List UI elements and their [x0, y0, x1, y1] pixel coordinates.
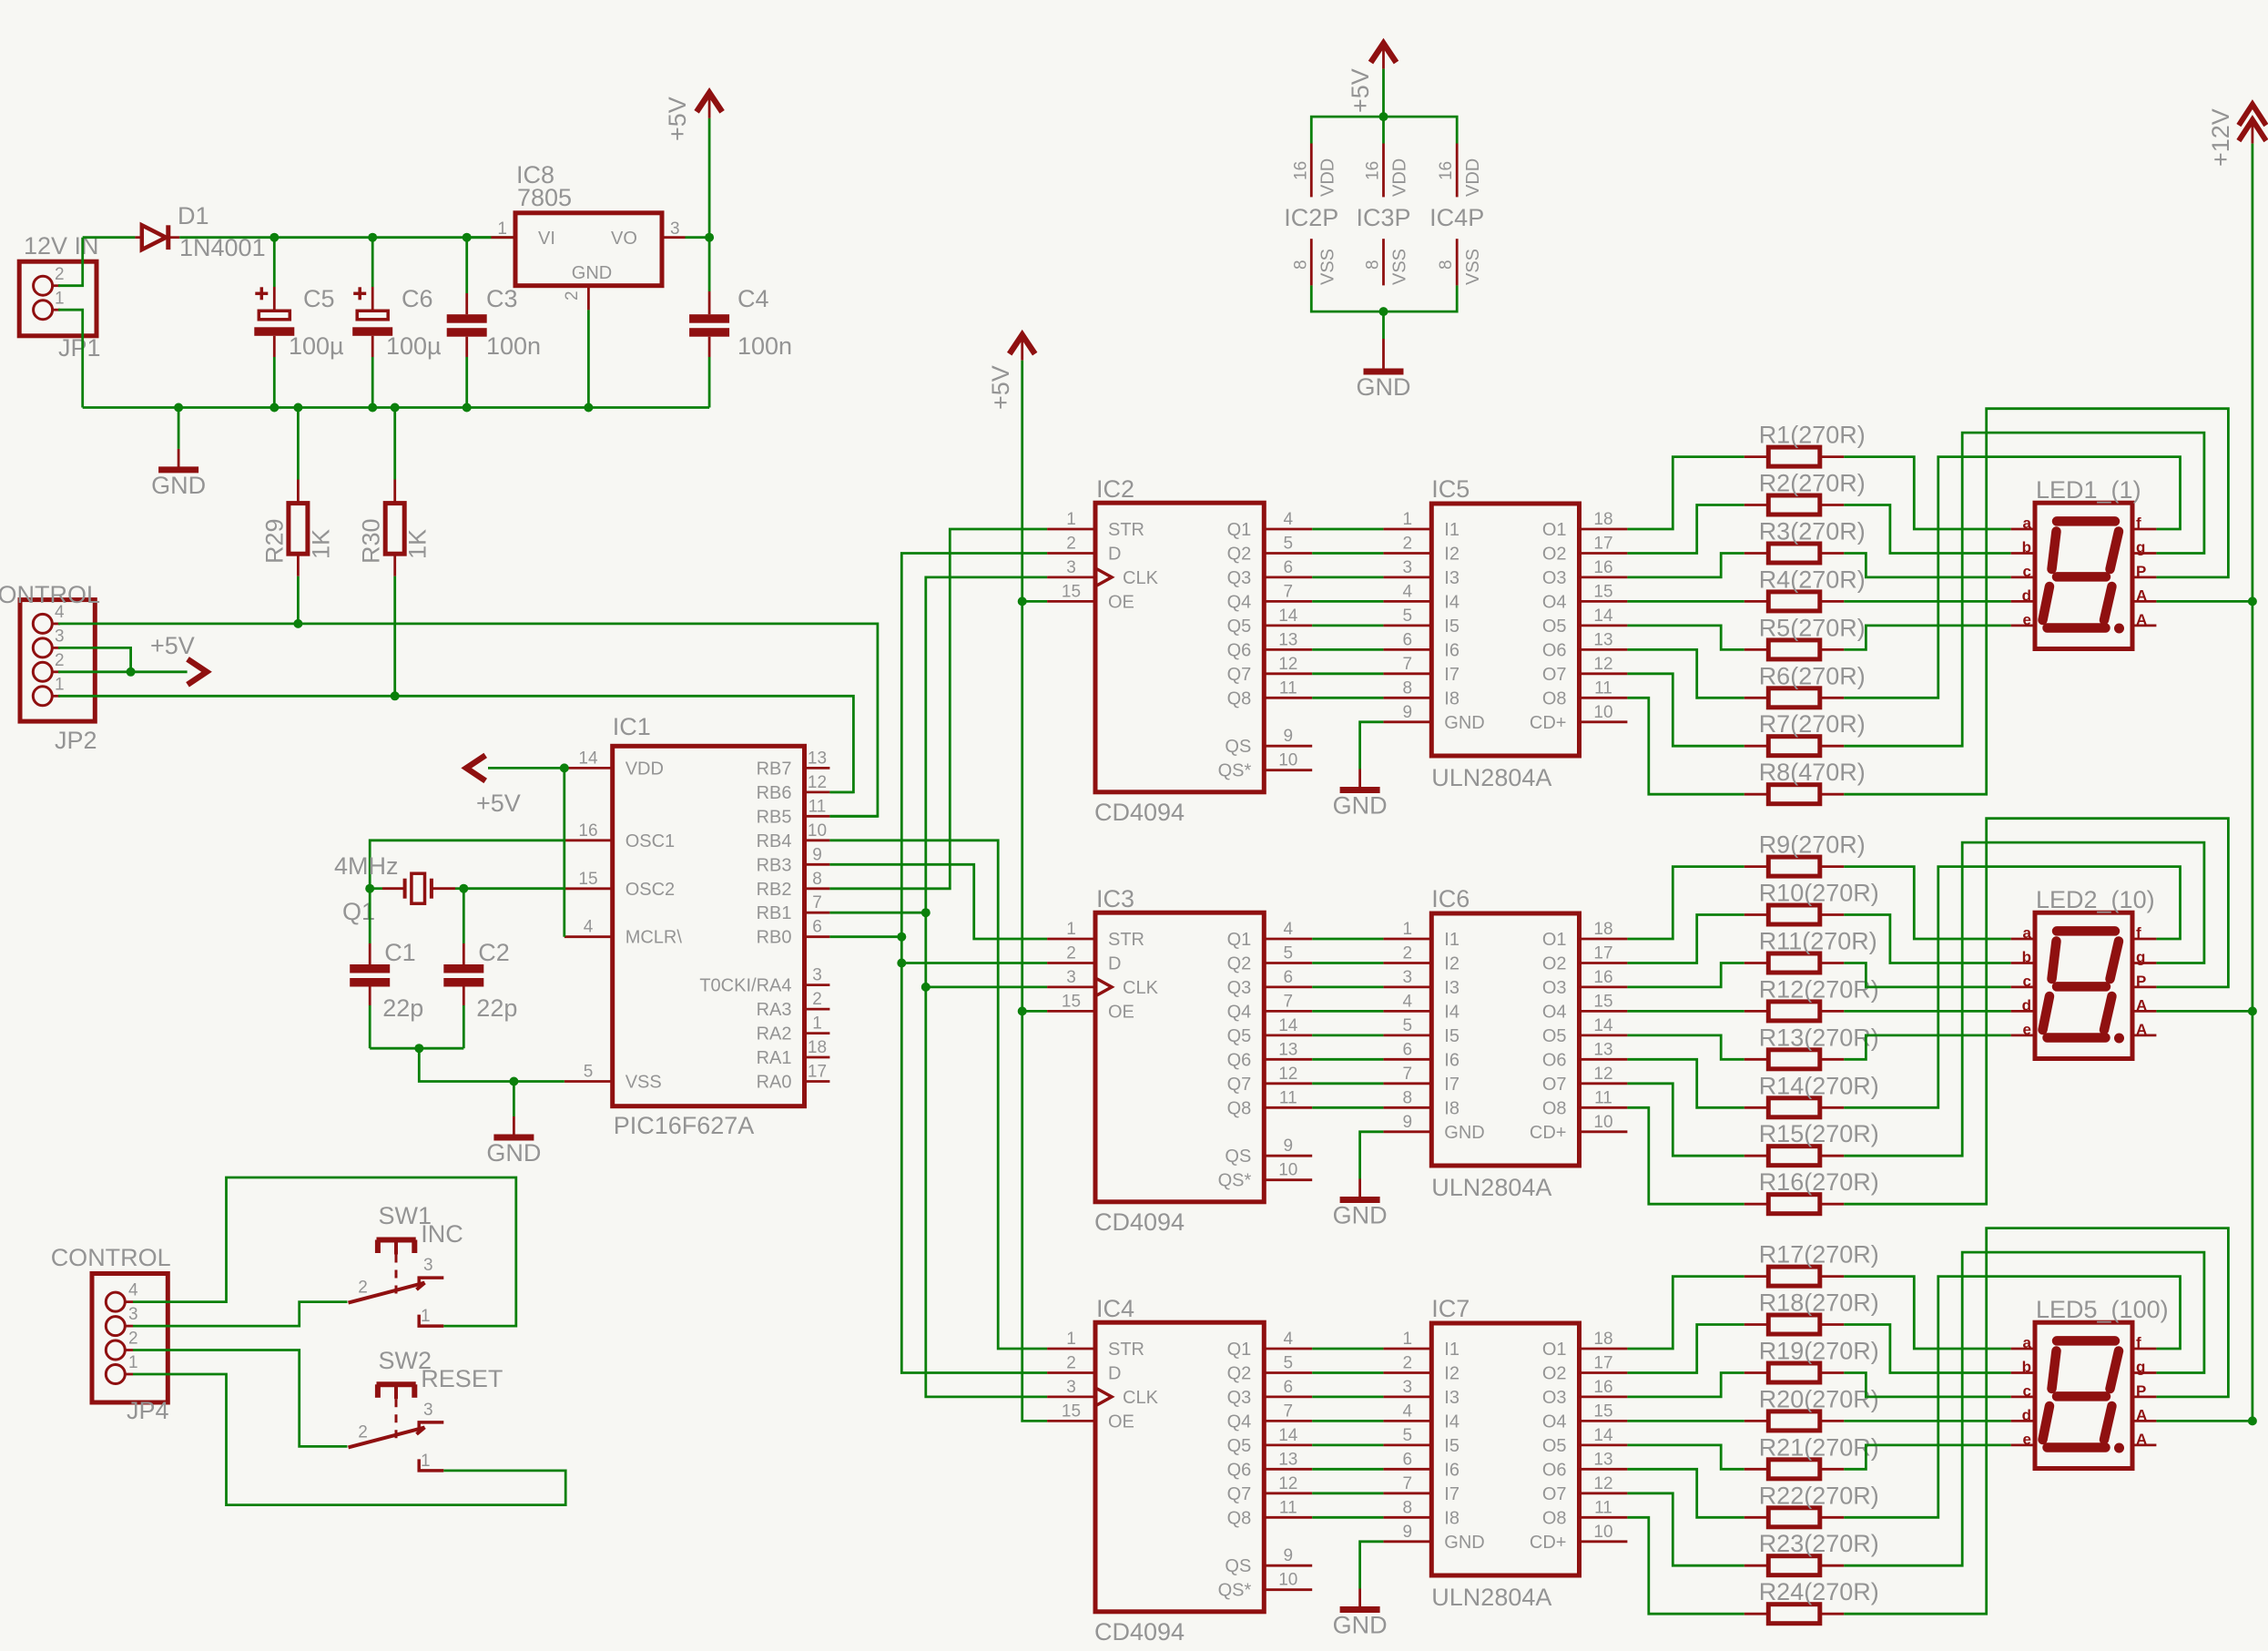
svg-text:16: 16: [1593, 968, 1612, 987]
svg-text:4MHz: 4MHz: [334, 852, 399, 880]
svg-text:2: 2: [1403, 1354, 1413, 1373]
resistor R1 270R: [1768, 447, 1820, 466]
IC7 pin 16 O3 stub: [1580, 1396, 1628, 1399]
svg-text:GND: GND: [1444, 1533, 1484, 1553]
JP2 pin 4 circle: [33, 614, 52, 633]
wire OE branch IC3: [1022, 1010, 1047, 1013]
R7 left pin: [1744, 745, 1769, 748]
capacitor C6: [352, 287, 392, 336]
svg-text:VDD: VDD: [1317, 158, 1337, 197]
R1 right pin: [1820, 455, 1845, 458]
IC5 pin 11 O8 stub: [1580, 697, 1628, 699]
IC2 pin 14 Q5 stub: [1264, 625, 1312, 627]
wire R11 to LED c: [1844, 963, 2010, 987]
IC4 pin 2 D stub: [1047, 1371, 1095, 1374]
svg-text:8: 8: [1403, 678, 1413, 698]
IC4 pin 5 Q2 stub: [1264, 1371, 1312, 1374]
junction 12V/C5: [270, 233, 279, 242]
wire O3 to R19: [1627, 1373, 1744, 1397]
svg-text:8: 8: [1403, 1498, 1413, 1517]
R29 bottom pin: [297, 554, 300, 576]
svg-text:CONTROL: CONTROL: [0, 581, 100, 608]
R15 left pin: [1744, 1155, 1769, 1157]
svg-text:R8(470R): R8(470R): [1759, 759, 1866, 786]
R20 right pin: [1820, 1420, 1845, 1422]
svg-text:3: 3: [55, 627, 65, 646]
IC5 pin 13 O6 stub: [1580, 648, 1628, 651]
IC3 pin 9 QS stub: [1264, 1155, 1312, 1157]
IC7 pin 14 O5 stub: [1580, 1444, 1628, 1447]
LED1 pin c stub: [2011, 576, 2035, 579]
svg-text:9: 9: [1284, 1136, 1294, 1156]
IC7 pin 10 CD+ stub: [1580, 1540, 1628, 1543]
svg-text:R14(270R): R14(270R): [1759, 1072, 1879, 1099]
IC3 CLK wedge: [1095, 978, 1112, 996]
svg-text:R1(270R): R1(270R): [1759, 422, 1866, 449]
svg-text:4: 4: [1403, 582, 1413, 601]
LED5 pin g stub: [2132, 1371, 2156, 1374]
LED5 pin a stub: [2011, 1348, 2035, 1350]
svg-text:C1: C1: [384, 939, 416, 966]
wire IC4 Q1 to IC7 I1: [1312, 1348, 1383, 1350]
IC6 pin 5 I5 stub: [1383, 1034, 1431, 1037]
wire O7 to R15: [1627, 1084, 1744, 1156]
svg-text:RB7: RB7: [757, 759, 792, 779]
LED1 pin d stub: [2011, 600, 2035, 603]
JP4 pin 4 circle: [106, 1292, 125, 1311]
JP4 pin 1 circle: [106, 1365, 125, 1384]
svg-text:P: P: [2136, 973, 2146, 990]
R4 left pin: [1744, 600, 1769, 603]
IC7 pin 3 I3 stub: [1383, 1396, 1431, 1399]
svg-text:O3: O3: [1542, 1388, 1567, 1408]
IC7 pin 11 O8 stub: [1580, 1516, 1628, 1519]
IC2 pin 2 D stub: [1047, 552, 1095, 555]
svg-text:IC2: IC2: [1096, 475, 1134, 503]
resistor R20 270R: [1768, 1412, 1820, 1431]
LED display LED5_(100) box: [2035, 1322, 2132, 1468]
svg-text:14: 14: [1593, 1426, 1613, 1445]
R23 left pin: [1744, 1564, 1769, 1567]
wire O3 to R3: [1627, 554, 1744, 577]
svg-text:D: D: [1108, 1364, 1121, 1384]
R5 left pin: [1744, 648, 1769, 651]
svg-text:Q3: Q3: [1227, 978, 1252, 998]
IC2 pin 7 Q4 stub: [1264, 600, 1312, 603]
LED2 pin e stub: [2011, 1034, 2035, 1037]
svg-text:VDD: VDD: [1390, 158, 1410, 197]
IC4 pin 10 QS* stub: [1264, 1588, 1312, 1591]
wire RB4 to IC4 STR: [829, 841, 1047, 1349]
wire R15 to LED g: [1844, 842, 2204, 1156]
svg-text:2: 2: [358, 1422, 368, 1442]
svg-text:Q8: Q8: [1227, 688, 1252, 708]
IC8 pin 2 GND stub: [587, 286, 590, 311]
svg-text:16: 16: [1291, 161, 1310, 180]
svg-text:15: 15: [1062, 992, 1081, 1011]
GND rail wire: [83, 406, 709, 409]
svg-text:Q2: Q2: [1227, 1364, 1252, 1384]
junction R30/JP2.1 net: [391, 691, 400, 700]
svg-text:1K: 1K: [307, 529, 334, 559]
svg-text:3: 3: [1403, 968, 1413, 987]
LED1 pin A stub: [2132, 600, 2156, 603]
svg-text:VO: VO: [611, 229, 637, 249]
wire VSS rail: [1311, 285, 1457, 311]
svg-text:+5V: +5V: [476, 790, 521, 817]
svg-text:O1: O1: [1542, 930, 1567, 950]
svg-text:I6: I6: [1444, 1050, 1459, 1070]
svg-text:MCLR\: MCLR\: [625, 928, 683, 948]
R4 right pin: [1820, 600, 1845, 603]
IC7 pin 6 I6 stub: [1383, 1468, 1431, 1471]
IC4 pin 9 QS stub: [1264, 1564, 1312, 1567]
R1 left pin: [1744, 455, 1769, 458]
svg-text:10: 10: [1593, 703, 1612, 722]
svg-text:c: c: [2023, 1382, 2031, 1400]
C4 top pin: [708, 291, 711, 314]
C2 bottom pin: [463, 987, 465, 1006]
junction rail/IC8 GND: [584, 403, 593, 413]
svg-text:9: 9: [1284, 1546, 1294, 1565]
resistor R4 270R: [1768, 592, 1820, 611]
JP2 pin 1 circle: [33, 687, 52, 706]
LED2 pin f stub: [2132, 938, 2156, 941]
wire O6 to R22: [1627, 1469, 1744, 1517]
wire O7 to R23: [1627, 1493, 1744, 1565]
IC6 pin 9 GND stub: [1383, 1130, 1431, 1133]
wire RB2 to IC2 STR: [829, 529, 1047, 889]
svg-text:2: 2: [812, 990, 822, 1009]
svg-text:10: 10: [1593, 1113, 1612, 1132]
svg-text:b: b: [2022, 539, 2031, 556]
wire R10 to LED b: [1844, 915, 2010, 963]
R12 left pin: [1744, 1010, 1769, 1013]
svg-text:Q6: Q6: [1227, 1050, 1252, 1070]
svg-text:13: 13: [808, 749, 827, 768]
IC7 pin 2 I2 stub: [1383, 1371, 1431, 1374]
svg-text:I4: I4: [1444, 1412, 1459, 1432]
svg-text:11: 11: [1594, 1088, 1612, 1107]
IC3 pin 6 Q3 stub: [1264, 986, 1312, 989]
svg-text:VI: VI: [538, 229, 555, 249]
wire IC4 Q6 to IC7 I6: [1312, 1468, 1383, 1471]
IC4 CLK wedge: [1095, 1388, 1112, 1406]
wire +5V to IC1 VDD: [488, 767, 564, 769]
svg-text:14: 14: [1278, 1016, 1298, 1035]
wire RB1 to CLK bus: [829, 912, 925, 914]
svg-text:GND: GND: [151, 472, 206, 499]
wire R17 to LED a: [1844, 1277, 2010, 1349]
svg-text:I4: I4: [1444, 592, 1459, 612]
svg-text:1: 1: [55, 290, 65, 309]
IC IC7 ULN2804A box: [1431, 1323, 1579, 1575]
resistor R9 270R: [1768, 857, 1820, 876]
svg-text:1: 1: [497, 219, 507, 239]
R11 left pin: [1744, 962, 1769, 964]
svg-text:A: A: [2136, 996, 2147, 1014]
IC6 pin 13 O6 stub: [1580, 1058, 1628, 1061]
svg-text:QS: QS: [1225, 1147, 1251, 1167]
svg-text:I8: I8: [1444, 1098, 1459, 1118]
svg-text:I6: I6: [1444, 1460, 1459, 1480]
svg-text:IC3: IC3: [1096, 885, 1134, 912]
svg-text:15: 15: [1062, 582, 1081, 601]
wire to IC1 VSS: [419, 1048, 564, 1081]
svg-text:I8: I8: [1444, 688, 1459, 708]
svg-text:3: 3: [812, 966, 822, 985]
svg-text:12: 12: [1593, 1065, 1612, 1084]
R8 left pin: [1744, 793, 1769, 796]
svg-text:OE: OE: [1108, 1412, 1134, 1432]
IC4 pin 14 Q5 stub: [1264, 1444, 1312, 1447]
IC IC5 ULN2804A box: [1431, 504, 1579, 756]
svg-text:R24(270R): R24(270R): [1759, 1578, 1879, 1605]
svg-text:Q7: Q7: [1227, 665, 1252, 685]
svg-text:6: 6: [1284, 968, 1294, 987]
wire O5 to R13: [1627, 1035, 1744, 1059]
svg-text:7: 7: [1403, 655, 1413, 674]
svg-text:R13(270R): R13(270R): [1759, 1024, 1879, 1051]
svg-text:I7: I7: [1444, 1075, 1459, 1095]
svg-text:14: 14: [1278, 1426, 1298, 1445]
svg-text:I3: I3: [1444, 978, 1459, 998]
R6 left pin: [1744, 697, 1769, 699]
IC5 pin 3 I3 stub: [1383, 576, 1431, 579]
svg-text:LED2_(10): LED2_(10): [2036, 886, 2155, 913]
wire IC3 Q2 to IC6 I2: [1312, 962, 1383, 964]
resistor R15 270R: [1768, 1147, 1820, 1166]
svg-text:6: 6: [812, 918, 822, 937]
wire +5V to VDD rail: [1382, 69, 1385, 117]
junction +12V/LED5 A: [2248, 1416, 2257, 1425]
IC IC6 ULN2804A box: [1431, 913, 1579, 1166]
IC3 pin 12 Q7 stub: [1264, 1082, 1312, 1085]
+5V supply arrow (power): [697, 93, 722, 118]
svg-text:a: a: [2023, 924, 2032, 942]
IC1 pin 8 RB2 stub: [805, 887, 830, 890]
svg-text:O5: O5: [1542, 1436, 1567, 1456]
svg-text:R3(270R): R3(270R): [1759, 518, 1866, 545]
svg-text:R18(270R): R18(270R): [1759, 1289, 1879, 1317]
wire +5V OE column: [1022, 361, 1047, 1422]
svg-text:10: 10: [1278, 1571, 1297, 1590]
IC2 pin 6 Q3 stub: [1264, 576, 1312, 579]
svg-text:VSS: VSS: [1463, 249, 1483, 285]
svg-text:2: 2: [563, 290, 582, 301]
LED5 pin c stub: [2011, 1396, 2035, 1399]
svg-text:R11(270R): R11(270R): [1759, 928, 1877, 955]
wire O5 to R5: [1627, 626, 1744, 650]
svg-text:C2: C2: [478, 939, 510, 966]
wire VDD rail center drop: [1382, 117, 1385, 143]
R6 right pin: [1820, 697, 1845, 699]
IC6 pin 10 CD+ stub: [1580, 1130, 1628, 1133]
svg-text:CONTROL: CONTROL: [51, 1244, 171, 1271]
svg-text:VSS: VSS: [1390, 249, 1410, 285]
IC6 pin 11 O8 stub: [1580, 1106, 1628, 1109]
resistor R19 270R: [1768, 1363, 1820, 1382]
IC4 pin 6 Q3 stub: [1264, 1396, 1312, 1399]
IC1 pin 17 RA0 stub: [805, 1080, 830, 1083]
svg-text:OE: OE: [1108, 592, 1134, 612]
svg-text:9: 9: [1403, 1113, 1413, 1132]
wire R24 to LED P: [1844, 1228, 2228, 1615]
svg-text:2: 2: [358, 1279, 368, 1298]
svg-text:d: d: [2022, 586, 2031, 604]
wire IC3 Q1 to IC6 I1: [1312, 938, 1383, 941]
IC5 pin 18 O1 stub: [1580, 528, 1628, 531]
svg-text:8: 8: [812, 870, 822, 889]
svg-text:+5V: +5V: [987, 365, 1014, 410]
svg-text:A: A: [2136, 1406, 2147, 1423]
svg-text:CD4094: CD4094: [1094, 1208, 1185, 1236]
svg-text:10: 10: [1278, 1161, 1297, 1180]
svg-text:CD+: CD+: [1530, 1533, 1567, 1553]
IC3 pin 3 CLK stub: [1047, 986, 1095, 989]
svg-text:15: 15: [1593, 582, 1612, 601]
resistor R14 270R: [1768, 1098, 1820, 1117]
wire crystal to C2: [463, 889, 465, 943]
svg-text:RB0: RB0: [757, 928, 792, 948]
junction 12V/C6: [368, 233, 377, 242]
svg-text:1: 1: [1403, 920, 1413, 939]
IC5 pin 10 CD+ stub: [1580, 720, 1628, 723]
svg-text:c: c: [2023, 563, 2031, 580]
svg-text:O8: O8: [1542, 688, 1567, 708]
svg-text:D1: D1: [178, 202, 209, 229]
svg-text:4: 4: [584, 918, 594, 937]
R30 bottom pin: [393, 554, 396, 576]
wire IC3 Q4 to IC6 I4: [1312, 1010, 1383, 1013]
D1 cathode pin: [170, 236, 179, 239]
IC1 pin 7 RB1 stub: [805, 912, 830, 914]
svg-text:R10(270R): R10(270R): [1759, 880, 1879, 907]
svg-text:GND: GND: [1444, 713, 1484, 733]
resistor R23 270R: [1768, 1556, 1820, 1575]
svg-text:f: f: [2136, 1334, 2141, 1351]
wire IC2 Q8 to IC5 I8: [1312, 697, 1383, 699]
IC3 pin 2 D stub: [1047, 962, 1095, 964]
svg-text:e: e: [2023, 611, 2031, 628]
IC7 pin 9 GND stub: [1383, 1540, 1431, 1543]
junction rail/R29: [293, 403, 302, 413]
svg-text:STR: STR: [1108, 520, 1144, 540]
svg-text:3: 3: [1066, 558, 1076, 577]
wire VSS rail to GND: [1382, 311, 1385, 339]
resistor R13 270R: [1768, 1050, 1820, 1069]
junction VO/C4/+5V: [705, 233, 714, 242]
R14 right pin: [1820, 1106, 1845, 1109]
svg-text:11: 11: [1594, 678, 1612, 698]
svg-text:R4(270R): R4(270R): [1759, 566, 1866, 593]
svg-text:LED5_(100): LED5_(100): [2036, 1296, 2169, 1323]
IC5 pin 9 GND stub: [1383, 720, 1431, 723]
wire O7 to R7: [1627, 674, 1744, 746]
LED2 seven-segment digit: [2043, 931, 2125, 1043]
svg-text:I3: I3: [1444, 568, 1459, 588]
svg-text:4: 4: [1403, 992, 1413, 1011]
junction 12V/C3: [463, 233, 472, 242]
R13 right pin: [1820, 1058, 1845, 1061]
wire rail to R30: [393, 408, 396, 480]
svg-text:1: 1: [812, 1014, 822, 1034]
wire +12V rail: [2251, 144, 2253, 1422]
svg-text:1K: 1K: [404, 529, 432, 559]
svg-text:GND: GND: [1444, 1123, 1484, 1143]
wire CLK bus branch IC3: [926, 986, 1047, 989]
LED5 pin e stub: [2011, 1444, 2035, 1447]
IC8 pin 3 VO stub: [662, 236, 686, 239]
+12V supply arrow: [2239, 105, 2266, 144]
resistor R30 1K: [385, 504, 404, 555]
resistor R6 270R: [1768, 688, 1820, 708]
svg-text:12: 12: [1593, 1474, 1612, 1493]
svg-text:Q2: Q2: [1227, 954, 1252, 974]
IC6 pin 6 I6 stub: [1383, 1058, 1431, 1061]
junction JP2.2/JP2.3: [127, 668, 136, 677]
svg-text:15: 15: [1593, 1401, 1612, 1421]
svg-text:VDD: VDD: [625, 759, 664, 779]
wire IC4 Q4 to IC7 I4: [1312, 1420, 1383, 1422]
svg-text:+5V: +5V: [150, 632, 195, 659]
svg-text:g: g: [2136, 949, 2145, 966]
wire R19 to LED c: [1844, 1373, 2010, 1397]
junction OE IC3: [1018, 1006, 1027, 1015]
svg-text:O5: O5: [1542, 617, 1567, 637]
svg-text:R22(270R): R22(270R): [1759, 1482, 1879, 1509]
ground GND (IC1): [486, 1116, 541, 1167]
svg-text:O1: O1: [1542, 520, 1567, 540]
svg-text:17: 17: [808, 1063, 827, 1082]
wire IC4 Q8 to IC7 I8: [1312, 1516, 1383, 1519]
wire crystal right lead: [455, 887, 463, 890]
svg-text:9: 9: [1403, 703, 1413, 722]
IC6 pin 4 I4 stub: [1383, 1010, 1431, 1013]
svg-text:12: 12: [1593, 655, 1612, 674]
svg-text:R9(270R): R9(270R): [1759, 831, 1866, 859]
svg-text:IC4: IC4: [1096, 1295, 1134, 1322]
svg-text:4: 4: [1284, 510, 1294, 529]
svg-text:IC2P: IC2P: [1284, 204, 1338, 231]
svg-text:I8: I8: [1444, 1508, 1459, 1528]
svg-text:RB2: RB2: [757, 880, 792, 900]
wire R6 to LED f: [1844, 457, 2180, 698]
svg-text:O3: O3: [1542, 978, 1567, 998]
svg-text:16: 16: [1593, 558, 1612, 577]
wire O1 to R1: [1627, 457, 1744, 529]
wire IC7 GND to ground: [1360, 1542, 1384, 1589]
svg-text:JP2: JP2: [55, 727, 97, 754]
svg-text:5: 5: [584, 1063, 594, 1082]
svg-text:8: 8: [1437, 260, 1456, 270]
wire R7 to LED g: [1844, 433, 2204, 746]
svg-text:100n: 100n: [737, 332, 792, 360]
IC3 pin 7 Q4 stub: [1264, 1010, 1312, 1013]
junction R29/JP2.4 net: [293, 619, 302, 628]
IC6 pin 18 O1 stub: [1580, 938, 1628, 941]
wire D bus branch IC3: [901, 962, 1047, 964]
resistor R16 270R: [1768, 1195, 1820, 1214]
wire crystal left lead: [370, 887, 382, 890]
svg-text:5: 5: [1284, 535, 1294, 554]
LED2 pin A stub: [2132, 1034, 2156, 1037]
svg-text:C4: C4: [737, 285, 769, 312]
wire JP4.2 to SW2.2: [133, 1350, 348, 1447]
svg-text:R20(270R): R20(270R): [1759, 1385, 1879, 1412]
JP4 pin 3 circle: [106, 1317, 125, 1336]
wire O4 to R20: [1627, 1420, 1744, 1422]
